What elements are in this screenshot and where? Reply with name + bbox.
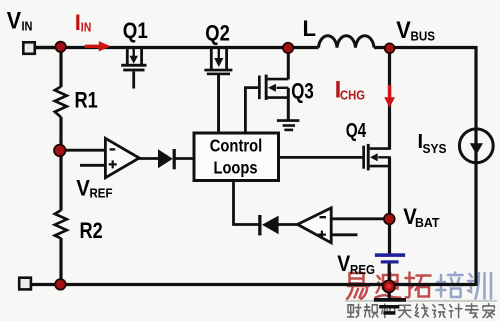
- inductor L: [319, 36, 375, 48]
- node inductor-left junction: [283, 43, 293, 53]
- node R1-R2 junction: [54, 145, 66, 157]
- svg-text:Q1: Q1: [123, 18, 148, 43]
- svg-text:CHG: CHG: [340, 88, 365, 103]
- wire Q3 gate to control block: [245, 88, 259, 132]
- transistor Q3: [258, 47, 289, 120]
- current arrow ICHG: [384, 85, 395, 108]
- terminal VIN pad: [23, 42, 35, 54]
- svg-text:L: L: [303, 16, 316, 41]
- node VIN junction: [55, 42, 65, 52]
- svg-text:R1: R1: [75, 87, 98, 112]
- svg-text:R2: R2: [80, 218, 103, 243]
- wire VBAT junction vertical: [388, 214, 391, 224]
- svg-text:IN: IN: [22, 19, 33, 34]
- battery-ground junction highlight: [386, 284, 391, 289]
- node VBUS junction: [385, 43, 395, 53]
- node VBAT junction: [384, 214, 395, 225]
- svg-text:Loops: Loops: [214, 158, 258, 178]
- wire Q2 gate to control block: [217, 75, 220, 132]
- wire left rail upper segment: [59, 46, 62, 87]
- control loops block: [194, 133, 279, 181]
- watermark slogan row: [348, 304, 362, 317]
- diode D2: [258, 215, 278, 235]
- watermark underline rule: [345, 300, 497, 302]
- resistor R2: [55, 210, 67, 238]
- terminal bottom-left pad: [19, 278, 31, 290]
- svg-text:REG: REG: [350, 262, 375, 277]
- battery VREG plate long: [375, 253, 405, 257]
- wire battery to ground: [388, 263, 391, 298]
- svg-text:V: V: [337, 251, 350, 276]
- op-amp U1: [105, 138, 139, 177]
- wire right rail: [474, 46, 477, 286]
- battery VREG plate short: [381, 260, 399, 263]
- ground below battery: [374, 298, 406, 315]
- svg-text:BUS: BUS: [411, 29, 436, 44]
- transistor Q1: [121, 47, 146, 89]
- resistor R1: [55, 87, 67, 118]
- wire op-amp U1 output to diode D1: [138, 157, 158, 160]
- op-amp U2: [298, 208, 332, 243]
- wire VREF to op-amp U1 non-inverting input: [80, 164, 105, 167]
- svg-text:REF: REF: [90, 186, 113, 201]
- wire VIN pad to junction: [35, 46, 60, 49]
- ground below Q3: [277, 119, 300, 131]
- wire op-amp U2 inverting input to VBAT: [331, 217, 390, 220]
- node bottom-left junction: [55, 279, 66, 290]
- transistor Q4: [362, 144, 391, 171]
- svg-text:Q4: Q4: [346, 120, 367, 142]
- current arrow IIN: [85, 41, 111, 51]
- wire bottom pad to junction: [31, 283, 60, 286]
- wire diode D2 to op-amp U2 output: [278, 223, 298, 226]
- current source ISYS: [459, 129, 493, 163]
- wire control block bottom to diode D2: [234, 181, 259, 225]
- svg-text:Q2: Q2: [205, 20, 230, 45]
- wire bottom rail: [60, 283, 476, 286]
- svg-text:IN: IN: [81, 19, 92, 34]
- wire top rail right of inductor: [374, 46, 476, 49]
- node battery-ground junction: [383, 280, 395, 292]
- svg-text:V: V: [7, 8, 21, 35]
- wire junction to op-amp U1 inverting input: [61, 149, 105, 152]
- wire Q4 source to battery: [388, 157, 391, 253]
- wire VBUS to Q4 drain: [388, 47, 391, 149]
- svg-text:V: V: [396, 17, 411, 44]
- watermark logo text: [345, 273, 497, 318]
- svg-text:Q3: Q3: [291, 78, 314, 103]
- diode D1: [158, 149, 176, 169]
- wire left rail lower segment: [59, 238, 62, 285]
- wire op-amp U2 non-inverting input stub: [331, 233, 358, 236]
- wire diode D1 to control block: [176, 157, 194, 160]
- svg-text:BAT: BAT: [415, 215, 440, 230]
- svg-text:SYS: SYS: [423, 141, 447, 156]
- wire control block to Q4 gate: [279, 156, 363, 159]
- svg-text:Control: Control: [210, 135, 263, 155]
- svg-text:V: V: [76, 176, 90, 201]
- transistor Q2: [204, 47, 232, 132]
- wire top rail left of inductor: [35, 46, 319, 49]
- wire left rail middle segment: [59, 117, 62, 211]
